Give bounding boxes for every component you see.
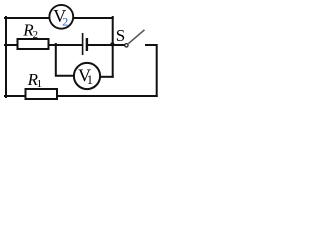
svg-text:1: 1	[87, 73, 93, 87]
svg-text:2: 2	[33, 29, 38, 41]
svg-text:S: S	[116, 26, 125, 45]
svg-text:2: 2	[62, 14, 68, 28]
svg-text:1: 1	[37, 78, 43, 90]
